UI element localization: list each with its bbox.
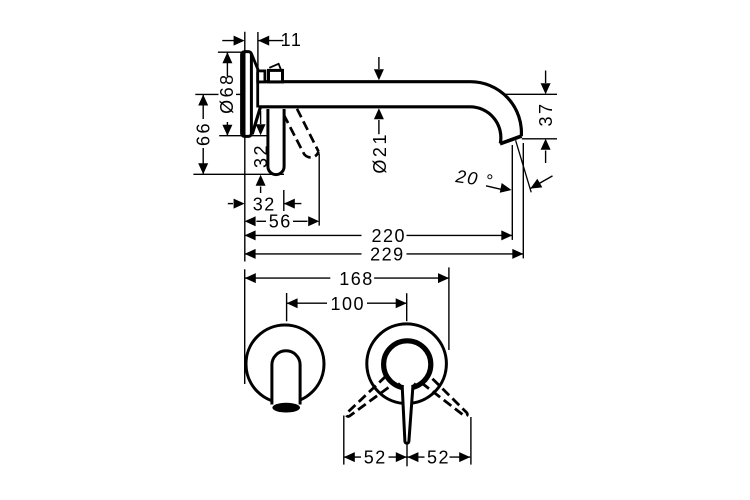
- dashed handle stem left: [344, 376, 393, 420]
- dimension O68: [222, 52, 232, 63]
- dimension 168: [245, 273, 256, 283]
- svg-text:66: 66: [194, 121, 214, 146]
- tick line plate bottom: [219, 135, 269, 137]
- dimension 52 left: [344, 452, 355, 462]
- extension line 52 center: [406, 445, 408, 467]
- handle lever (side view): [268, 109, 284, 175]
- spout front view: [272, 351, 300, 405]
- svg-text:168: 168: [339, 269, 374, 289]
- dimension 32 vertical: [260, 111, 262, 124]
- dashed handle stem right: [421, 375, 470, 419]
- handle stem fillet right: [411, 384, 416, 392]
- extension line spout tip outer: [522, 143, 524, 258]
- escutcheon cone bottom slant: [252, 107, 260, 134]
- dimension 100: [287, 298, 298, 308]
- right escutcheon circle: [367, 324, 447, 404]
- wall line: [244, 32, 246, 262]
- spout outlet ellipse: [272, 403, 300, 413]
- svg-text:100: 100: [331, 294, 366, 314]
- angle 20 degrees arrow left: [531, 176, 553, 189]
- svg-text:11: 11: [281, 30, 303, 50]
- dimension 56: [245, 216, 256, 226]
- svg-text:220: 220: [372, 226, 407, 246]
- extension line front left: [244, 269, 246, 384]
- handle stem fillet left: [398, 384, 403, 392]
- dimension 66: [198, 95, 208, 106]
- extension line 11 right: [257, 32, 259, 71]
- dashed lever (open position, side view): [284, 109, 319, 158]
- tick line lever tip: [193, 173, 284, 175]
- extension line spout tip inner: [511, 145, 513, 240]
- extension line 52 left: [343, 416, 345, 465]
- dimension 220: [245, 230, 256, 240]
- escutcheon cone front edge: [256, 72, 259, 108]
- tick line plate top: [218, 51, 244, 53]
- mounting box small: [258, 71, 265, 82]
- svg-text:37: 37: [536, 101, 556, 126]
- dimension 32 horizontal: [228, 203, 233, 205]
- dimension 229: [245, 249, 256, 259]
- svg-text:52: 52: [427, 448, 450, 468]
- spout pipe interior mask: [259, 83, 468, 105]
- spout pipe top edge: [259, 82, 522, 137]
- extension line circle right top: [406, 293, 408, 321]
- handle throat mask: [404, 385, 411, 394]
- spout tip face: [500, 136, 522, 144]
- dimension O21: [378, 57, 380, 69]
- angle 20 degrees leg: [516, 140, 532, 192]
- extension line lever right: [283, 190, 285, 211]
- svg-text:32: 32: [251, 143, 271, 168]
- plate back edge against wall: [243, 52, 246, 136]
- extension line dashed lever tip: [318, 154, 320, 226]
- mounting box large: [269, 70, 283, 82]
- svg-text:52: 52: [364, 448, 387, 468]
- extension line circle left top: [286, 293, 288, 321]
- dimension 52 right: [407, 452, 418, 462]
- svg-text:Ø68: Ø68: [217, 72, 237, 114]
- angle 20 degrees arrow right: [486, 186, 501, 190]
- flag tab: [269, 64, 281, 71]
- extension line front right: [448, 267, 450, 350]
- svg-text:Ø21: Ø21: [370, 132, 390, 174]
- handle stem (front view): [402, 387, 413, 444]
- escutcheon cone top slant: [252, 54, 259, 72]
- extension line 52 right: [470, 417, 472, 465]
- tick line spout axis: [195, 93, 218, 95]
- left escutcheon circle: [246, 325, 324, 403]
- escutcheon plate (side view): [242, 52, 252, 137]
- handle ring: [384, 341, 431, 388]
- dimension 37: [504, 93, 558, 95]
- svg-text:229: 229: [370, 245, 405, 265]
- dimension 11: [222, 40, 240, 42]
- svg-text:56: 56: [269, 212, 292, 232]
- spout pipe bottom edge: [259, 107, 501, 144]
